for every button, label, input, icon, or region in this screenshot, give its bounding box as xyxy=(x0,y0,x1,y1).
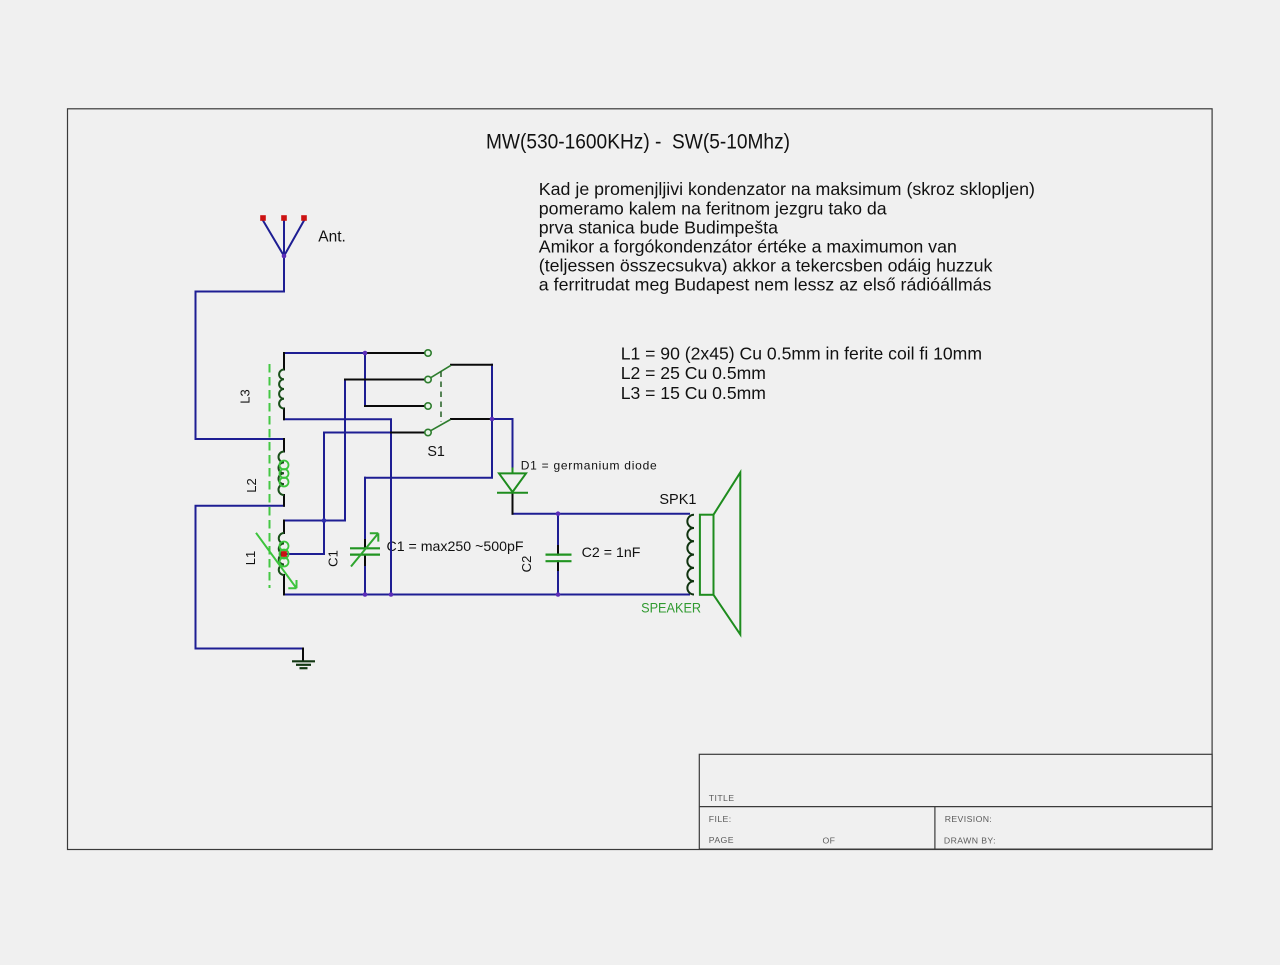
svg-text:Amikor a forgókondenzátor érté: Amikor a forgókondenzátor értéke a maxim… xyxy=(539,237,957,257)
svg-text:(teljessen összecsukva) akkor: (teljessen összecsukva) akkor a tekercsb… xyxy=(539,256,993,276)
svg-text:L2 = 25 Cu 0.5mm: L2 = 25 Cu 0.5mm xyxy=(621,363,766,383)
svg-text:OF: OF xyxy=(823,835,836,845)
svg-text:REVISION:: REVISION: xyxy=(945,814,993,824)
svg-text:Ant.: Ant. xyxy=(318,229,346,246)
svg-text:a ferritrudat meg Budapest nem: a ferritrudat meg Budapest nem lessz az … xyxy=(539,275,992,295)
svg-text:S1: S1 xyxy=(427,444,445,460)
svg-text:C2: C2 xyxy=(519,556,534,573)
svg-text:PAGE: PAGE xyxy=(709,835,734,845)
svg-text:D1 = germanium diode: D1 = germanium diode xyxy=(521,459,658,473)
svg-text:C1: C1 xyxy=(326,550,341,567)
svg-text:MW(530-1600KHz) - SW(5-10Mhz): MW(530-1600KHz) - SW(5-10Mhz) xyxy=(486,130,790,153)
svg-text:L3 = 15 Cu 0.5mm: L3 = 15 Cu 0.5mm xyxy=(621,383,766,403)
svg-text:C2 = 1nF: C2 = 1nF xyxy=(582,545,641,560)
svg-text:pomeramo kalem na feritnom j: pomeramo kalem na feritnom jezgru tako d… xyxy=(539,198,887,218)
svg-text:DRAWN BY:: DRAWN BY: xyxy=(944,835,996,845)
svg-text:Kad je promenjljivi kondenzato: Kad je promenjljivi kondenzator na maksi… xyxy=(539,179,1035,199)
svg-text:SPK1: SPK1 xyxy=(659,492,696,508)
svg-text:FILE:: FILE: xyxy=(709,814,732,824)
svg-text:L1 = 90 (2x45) Cu 0.5mm in fer: L1 = 90 (2x45) Cu 0.5mm in ferite coil f… xyxy=(621,343,982,363)
svg-text:prva stanica bude Budimpešta: prva stanica bude Budimpešta xyxy=(539,217,778,237)
svg-text:SPEAKER: SPEAKER xyxy=(641,600,701,616)
svg-text:C1 = max250 ~500pF: C1 = max250 ~500pF xyxy=(387,539,524,554)
svg-text:L1: L1 xyxy=(243,551,258,565)
svg-text:TITLE: TITLE xyxy=(709,793,735,803)
svg-text:L3: L3 xyxy=(238,389,253,403)
svg-text:L2: L2 xyxy=(244,478,259,492)
